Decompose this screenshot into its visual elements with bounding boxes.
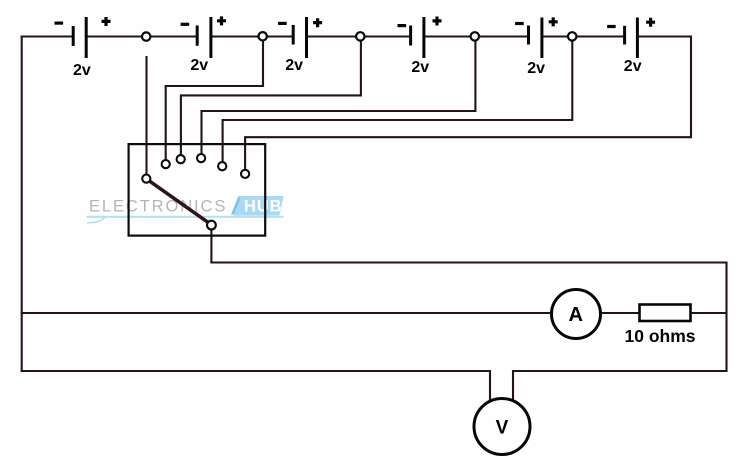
battery B4 (2v cell) bbox=[398, 17, 442, 59]
svg-text:ELECTRONICS: ELECTRONICS bbox=[89, 198, 227, 216]
svg-text:2v: 2v bbox=[190, 57, 208, 74]
wire: ammeter branch from left rail bbox=[21, 312, 552, 314]
resistor R1 body bbox=[640, 305, 691, 322]
battery B3 (2v cell) bbox=[278, 17, 322, 58]
wire: battery6+ right edge down, jog left, down to switch contact 6 bbox=[245, 37, 691, 172]
node E junction bbox=[568, 32, 576, 40]
voltmeter right lead bbox=[512, 370, 514, 403]
svg-text:10 ohms: 10 ohms bbox=[625, 326, 696, 346]
wire: node B drop, jog left, down to switch contact 2 bbox=[166, 41, 263, 163]
svg-text:2v: 2v bbox=[411, 59, 429, 76]
wire: top rail battery5+ to battery6- (through node E) bbox=[542, 35, 625, 37]
voltmeter V bbox=[474, 399, 530, 455]
node A junction bbox=[142, 32, 150, 40]
battery B5 (2v cell) bbox=[515, 17, 558, 58]
wire: top rail battery6+ to right corner bbox=[637, 35, 692, 37]
switch contact 2 bbox=[162, 160, 170, 168]
selector switch SW1 enclosure box bbox=[129, 144, 266, 236]
node C junction bbox=[356, 32, 364, 40]
watermark ElectronicsHub logo bbox=[87, 196, 284, 223]
wire: top rail segment left of battery 1 bbox=[21, 35, 73, 37]
wire: switch common drop from pole bbox=[210, 228, 212, 264]
svg-text:2v: 2v bbox=[285, 57, 303, 74]
switch common pole contact bbox=[207, 221, 216, 230]
wire: left rail vertical bbox=[21, 36, 23, 373]
switch contact 6 bbox=[241, 170, 249, 178]
svg-text:2v: 2v bbox=[624, 58, 642, 75]
svg-text:2v: 2v bbox=[73, 62, 91, 79]
node B junction bbox=[259, 32, 267, 40]
svg-text:V: V bbox=[496, 418, 509, 439]
voltmeter left lead bbox=[489, 370, 491, 403]
wire: right rail vertical (switch output down to bottom rail) bbox=[725, 262, 727, 373]
wire: node A drop to switch contact 1 bbox=[145, 56, 147, 176]
wire: top rail battery2+ to battery3- (through node B) bbox=[211, 35, 293, 37]
wire: bottom rail right of voltmeter bbox=[513, 370, 728, 372]
svg-text:A: A bbox=[569, 304, 583, 326]
wire: top rail battery1+ to battery2- (through node A) bbox=[86, 35, 197, 37]
node D junction bbox=[471, 32, 479, 40]
wire: top rail battery3+ to battery4- (through node C) bbox=[307, 35, 411, 37]
wire: top rail battery4+ to battery5- (through node D) bbox=[424, 35, 529, 37]
wire: resistor to right rail bbox=[690, 312, 727, 314]
switch contact 1 (pivot) bbox=[142, 175, 150, 183]
wire: ammeter to resistor bbox=[600, 312, 640, 314]
wire: node D drop, jog left, down to switch contact 4 bbox=[202, 41, 476, 157]
wire: node C drop, jog left, down to switch contact 3 bbox=[181, 41, 361, 158]
switch contact 3 bbox=[177, 155, 185, 163]
switch contact 5 bbox=[218, 162, 226, 170]
svg-text:HUB: HUB bbox=[244, 198, 282, 216]
switch contact 4 bbox=[197, 154, 205, 162]
ammeter A bbox=[552, 290, 601, 339]
battery B1 (2v cell) bbox=[55, 17, 111, 58]
wire: bottom rail left of voltmeter bbox=[21, 370, 490, 372]
wire: switch common output horizontal run bbox=[210, 261, 727, 263]
wire: node E drop, jog left, down to switch contact 5 bbox=[223, 41, 573, 165]
switch arm (wiper) bbox=[149, 181, 210, 224]
battery B2 (2v cell) bbox=[181, 16, 226, 58]
svg-text:2v: 2v bbox=[527, 60, 545, 77]
battery B6 (2v cell) bbox=[607, 18, 655, 59]
